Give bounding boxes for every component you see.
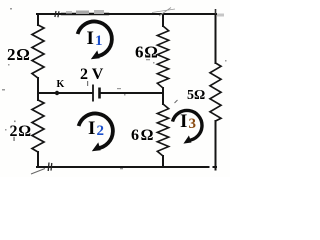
svg-text:2Ω: 2Ω [7, 45, 31, 64]
svg-text:I: I [87, 28, 94, 49]
wire right bottom segment [215, 121, 217, 170]
corner stub top-right [215, 9, 217, 14]
wire middle horizontal left of battery [38, 92, 92, 94]
svg-text:6Ω: 6Ω [131, 127, 155, 144]
wire middle horizontal right of battery [100, 92, 163, 94]
bottom wire scan break near right corner [210, 165, 213, 169]
svg-text:5Ω: 5Ω [187, 88, 205, 103]
svg-text:I: I [180, 111, 187, 132]
mesh current arrow I3 [173, 110, 202, 146]
svg-text:6Ω: 6Ω [135, 43, 159, 62]
svg-text:K: K [57, 79, 65, 90]
grey mark top-right wire end [217, 14, 224, 17]
wire bottom [37, 166, 216, 168]
wire top slightly thick segment [62, 13, 108, 15]
resistor 6ohm top zigzag [157, 26, 168, 88]
wire right top segment [215, 14, 217, 63]
wire left bottom segment [37, 152, 39, 167]
resistor 2ohm bottom-left zigzag [32, 100, 44, 152]
scratch artifact bottom-left [31, 169, 45, 175]
svg-text:I: I [88, 118, 95, 139]
svg-text:1: 1 [95, 33, 103, 49]
battery V 2V short plate [98, 88, 101, 99]
battery V 2V long plate [92, 85, 94, 102]
wire left middle segment [37, 78, 39, 100]
svg-text:2: 2 [97, 123, 105, 139]
resistor 6ohm bottom zigzag [157, 104, 168, 156]
tick marks artifact on bottom wire [48, 163, 52, 172]
wire left top segment [37, 14, 39, 25]
node K junction dot [55, 91, 59, 95]
wire middle vertical bottom segment [162, 156, 164, 167]
wire middle vertical top segment [162, 14, 164, 26]
resistor 5ohm zigzag [210, 63, 221, 121]
mesh current arrow I2 [79, 113, 113, 154]
svg-text:2Ω: 2Ω [10, 123, 32, 140]
tick marks artifact on top wire [55, 11, 59, 17]
svg-text:3: 3 [189, 116, 197, 132]
scan noise speckles [2, 8, 227, 169]
mesh current arrow I1 [78, 21, 112, 62]
scribble artifact top junction [152, 8, 175, 17]
wire top [37, 13, 216, 15]
resistor 2ohm top-left zigzag [32, 25, 44, 78]
svg-text:2 V: 2 V [80, 66, 104, 83]
wire middle vertical center segment [162, 88, 164, 104]
